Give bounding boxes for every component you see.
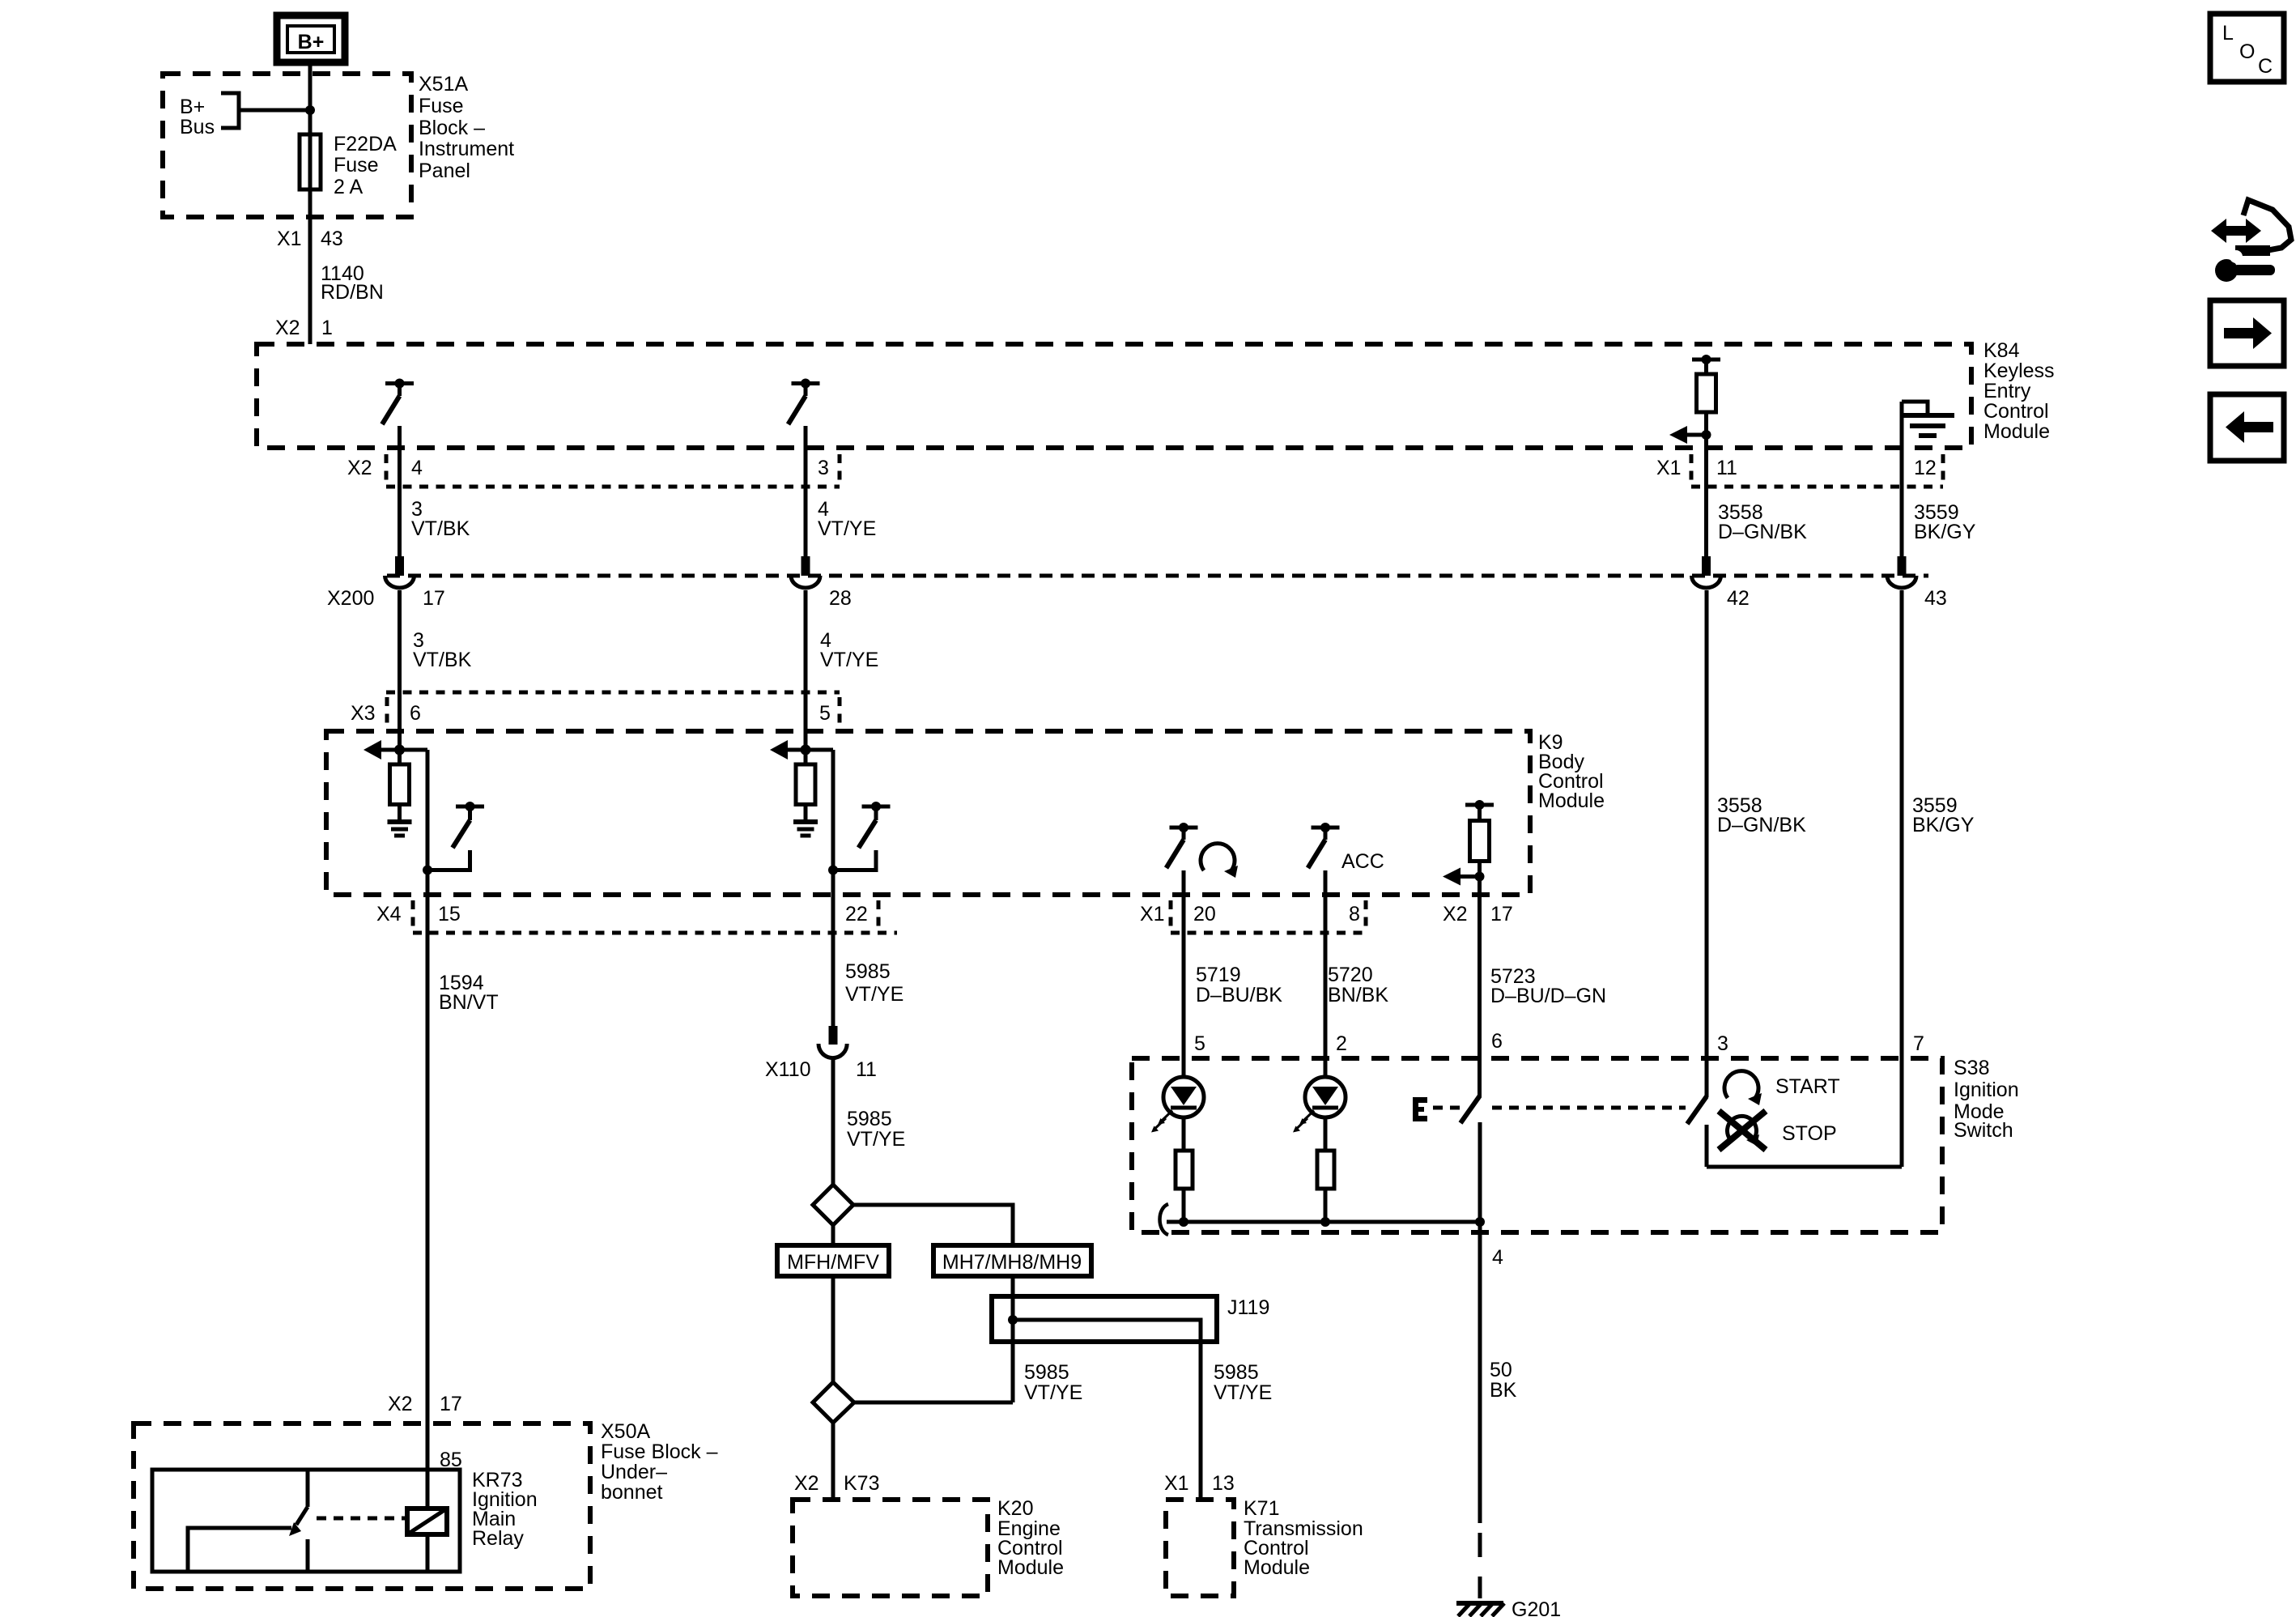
- svg-text:2 A: 2 A: [334, 176, 363, 198]
- wire label 5985 VT/YE above X110: [0, 0, 1, 1]
- svg-text:D–BU/BK: D–BU/BK: [1196, 984, 1282, 1006]
- svg-text:17: 17: [440, 1393, 462, 1415]
- svg-text:2: 2: [1336, 1032, 1347, 1055]
- svg-text:B+: B+: [298, 31, 325, 53]
- wire R2 to ground: [398, 805, 402, 820]
- inline connector X110: [765, 1026, 877, 1081]
- module K71 dashed box: [1166, 1500, 1234, 1596]
- wire D1 branch right: [853, 1205, 1013, 1245]
- loc arrow left box: [2210, 394, 2284, 461]
- B+ bus bracket: [221, 93, 239, 128]
- junction dot bus LED1: [1179, 1217, 1188, 1227]
- svg-text:C: C: [2258, 55, 2273, 78]
- wire label 5985 VT/YE right leg: [1214, 1361, 1272, 1404]
- wire branch pin6 down: [426, 750, 430, 870]
- svg-text:X51A: X51A: [419, 73, 468, 96]
- svg-text:3: 3: [818, 457, 829, 479]
- wire label 4 VT/YE lower: [820, 629, 878, 671]
- svg-text:START: START: [1775, 1075, 1840, 1098]
- mechanical link E to switches: [1433, 1106, 1686, 1110]
- label KR73 Ignition Main Relay: [472, 1469, 538, 1550]
- resistor R1 in K84: [1692, 355, 1720, 412]
- svg-text:20: 20: [1193, 903, 1216, 926]
- wire X200 to X3 right: [804, 590, 808, 692]
- svg-text:5719: 5719: [1196, 964, 1241, 986]
- svg-text:MFH/MFV: MFH/MFV: [787, 1251, 879, 1274]
- svg-text:VT/YE: VT/YE: [1024, 1381, 1082, 1404]
- wire label 3558 D-GN/BK lower: [1717, 794, 1806, 836]
- svg-text:11: 11: [1716, 457, 1737, 479]
- inline connector X200 wire 1: [385, 556, 415, 588]
- wire ground to pin12 X200: [1900, 402, 1904, 557]
- fuse F22DA: [300, 134, 321, 189]
- wire J119 splice to K71: [1013, 1320, 1201, 1500]
- svg-text:K84: K84: [1983, 339, 2020, 362]
- svg-text:X1: X1: [1140, 903, 1165, 926]
- svg-text:Module: Module: [1244, 1556, 1310, 1579]
- switch S6 acc in K9: [1308, 823, 1340, 868]
- connector X2 pin 17 of X50A: [388, 1393, 462, 1415]
- svg-text:X2: X2: [1443, 903, 1468, 926]
- wire R4 to junction: [1478, 862, 1482, 877]
- wire LED D1 to resistor: [1182, 1117, 1186, 1151]
- svg-text:ACC: ACC: [1341, 850, 1384, 873]
- svg-text:X4: X4: [376, 903, 402, 926]
- svg-text:STOP: STOP: [1782, 1122, 1837, 1145]
- splice diamond D1: [813, 1185, 853, 1225]
- wire pin4 to ground dashed: [1478, 1533, 1482, 1598]
- svg-text:5: 5: [819, 702, 831, 725]
- wire R3 to ground: [804, 805, 808, 820]
- wire pin11 down to X200: [1704, 435, 1708, 557]
- start rotate symbol: [1724, 1071, 1762, 1105]
- rotate symbol run: [1201, 844, 1238, 878]
- svg-text:17: 17: [1490, 903, 1513, 926]
- bus continuation curl: [1160, 1204, 1169, 1235]
- wire 3558 X200 to S38 pin3: [1705, 590, 1709, 1097]
- power symbol B+: [277, 15, 345, 62]
- svg-text:D–BU/D–GN: D–BU/D–GN: [1490, 985, 1606, 1007]
- switch S4 in K9 right: [833, 802, 891, 870]
- connector row X1 of K9: [1140, 900, 1366, 933]
- svg-text:6: 6: [1491, 1030, 1503, 1053]
- svg-text:MH7/MH8/MH9: MH7/MH8/MH9: [942, 1251, 1082, 1274]
- relay blade arrowhead: [289, 1522, 301, 1536]
- svg-text:X2: X2: [794, 1472, 819, 1495]
- svg-text:15: 15: [438, 903, 461, 926]
- svg-text:Relay: Relay: [472, 1527, 524, 1550]
- ground G201: [1456, 1598, 1561, 1617]
- wire label 3559 BK/GY lower: [1912, 794, 1975, 836]
- svg-text:5985: 5985: [845, 960, 891, 983]
- svg-text:L: L: [2222, 22, 2234, 45]
- splice diamond D2: [813, 1382, 854, 1423]
- off-page arrow left K84: [1669, 426, 1711, 444]
- resistor R5 in S38: [1176, 1151, 1193, 1189]
- svg-text:22: 22: [845, 903, 868, 926]
- resistor R3 in K9: [796, 764, 815, 805]
- svg-text:Panel: Panel: [419, 160, 470, 182]
- switch S3 in K9 left: [427, 802, 484, 870]
- junction dot B+ bus: [305, 105, 315, 115]
- wire label 3 VT/BK lower: [413, 629, 472, 671]
- resistor R6 in S38: [1317, 1151, 1334, 1189]
- svg-text:K71: K71: [1244, 1497, 1279, 1520]
- svg-text:VT/YE: VT/YE: [818, 517, 876, 540]
- svg-text:O: O: [2239, 40, 2255, 63]
- svg-text:X50A: X50A: [601, 1420, 650, 1443]
- junction dot J119: [1008, 1315, 1018, 1325]
- svg-text:Module: Module: [997, 1556, 1064, 1579]
- svg-text:Block –: Block –: [419, 117, 485, 139]
- relay contact blade: [296, 1507, 308, 1525]
- wire label 5985 VT/YE below X110: [847, 1108, 905, 1151]
- svg-text:3: 3: [1717, 1032, 1728, 1055]
- wire label 50 BK: [1490, 1359, 1517, 1402]
- module K9 dashed box: [326, 731, 1530, 895]
- wire label 1140 RD/BN: [321, 262, 384, 304]
- svg-text:Fuse Block –: Fuse Block –: [601, 1440, 718, 1463]
- switch S1 in K84: [382, 379, 414, 425]
- off-page arrow left K9 pin5: [770, 740, 833, 760]
- svg-text:RD/BN: RD/BN: [321, 281, 384, 304]
- junction dot S3 output: [423, 866, 432, 875]
- switch S2 in K84: [789, 379, 820, 425]
- svg-text:X2: X2: [275, 317, 300, 339]
- fuse block X51A dashed box: [163, 74, 411, 217]
- label S38 Ignition Mode Switch: [1954, 1057, 2019, 1142]
- wire label 3559 BK/GY upper: [1914, 501, 1976, 543]
- off-page arrow left K9 pin17: [1443, 868, 1485, 886]
- wire label 5985 VT/YE left leg: [1024, 1361, 1082, 1404]
- svg-text:Keyless: Keyless: [1983, 360, 2055, 382]
- contact stub pin3: [1705, 1125, 1709, 1167]
- module K20 dashed box: [793, 1500, 988, 1596]
- svg-text:7: 7: [1913, 1032, 1924, 1055]
- wire LED D2 to resistor: [1324, 1117, 1328, 1151]
- switch blade S38 pin3: [1687, 1096, 1707, 1124]
- net box MFH/MFV: [777, 1245, 889, 1276]
- wire MFH box to D2: [831, 1276, 835, 1382]
- junction dot bus pin4: [1475, 1217, 1485, 1227]
- relay fixed contact L: [188, 1528, 291, 1572]
- connector row X2 of K84: [347, 454, 840, 487]
- module K84 dashed box: [257, 344, 1971, 448]
- svg-text:D–GN/BK: D–GN/BK: [1718, 521, 1807, 543]
- wire pin20 down: [1182, 870, 1186, 1078]
- junction dot S4 output: [828, 866, 838, 875]
- svg-text:G201: G201: [1512, 1598, 1561, 1617]
- svg-text:K20: K20: [997, 1497, 1033, 1520]
- relay contact common stub: [306, 1470, 310, 1507]
- connector row X1 of K84: [1656, 454, 1943, 487]
- svg-text:43: 43: [321, 228, 343, 250]
- wire S1 to X200: [398, 426, 402, 557]
- svg-text:6: 6: [410, 702, 421, 725]
- wire label 5985 VT/YE col2: [845, 960, 904, 1006]
- wire B+ down through fuse: [308, 62, 313, 344]
- contact box bottom S38: [1707, 1165, 1902, 1169]
- svg-text:BK: BK: [1490, 1379, 1517, 1402]
- stop crossed rotate symbol: [1719, 1111, 1766, 1150]
- wire R6 to bus: [1324, 1189, 1328, 1222]
- indicator bus wire in S38: [1167, 1220, 1480, 1224]
- wire MH7 box to J119: [1011, 1276, 1015, 1402]
- svg-text:X2: X2: [388, 1393, 413, 1415]
- svg-text:Switch: Switch: [1954, 1119, 2013, 1142]
- svg-text:12: 12: [1914, 457, 1937, 479]
- junction dot bus LED2: [1320, 1217, 1330, 1227]
- svg-text:Module: Module: [1538, 789, 1605, 812]
- svg-text:J119: J119: [1227, 1296, 1269, 1319]
- wire D1 to MFH box: [831, 1225, 835, 1245]
- svg-text:VT/YE: VT/YE: [845, 983, 904, 1006]
- connector X2 pin 17 of K9: [1443, 903, 1513, 926]
- svg-text:5720: 5720: [1328, 964, 1373, 986]
- relay contact lower stub: [306, 1539, 310, 1572]
- svg-text:F22DA: F22DA: [334, 133, 397, 155]
- wire branch pin5 down: [831, 750, 835, 870]
- inline connector X200 wire 42: [1692, 556, 1721, 588]
- switch S5 run in K9: [1167, 823, 1198, 868]
- label K9 Body Control Module: [1538, 731, 1605, 812]
- module S38 dashed box: [1132, 1058, 1942, 1232]
- svg-text:X1: X1: [1164, 1472, 1189, 1495]
- svg-text:8: 8: [1349, 903, 1360, 926]
- connector row X3: [351, 692, 840, 726]
- svg-text:S38: S38: [1954, 1057, 1989, 1079]
- svg-text:11: 11: [856, 1058, 877, 1081]
- svg-text:Ignition: Ignition: [1954, 1079, 2019, 1101]
- ground in K9 left: [388, 822, 412, 836]
- label X50A Fuse Block Underbonnet: [601, 1420, 718, 1504]
- wire label 5723 D-BU/D-GN: [1490, 965, 1606, 1007]
- wire pin8 down: [1324, 870, 1328, 1078]
- svg-text:bonnet: bonnet: [601, 1481, 663, 1504]
- svg-text:Bus: Bus: [180, 116, 215, 138]
- svg-text:50: 50: [1490, 1359, 1512, 1381]
- resistor R2 in K9: [390, 764, 410, 805]
- svg-text:D–GN/BK: D–GN/BK: [1717, 814, 1806, 836]
- wire B+ bus to fuse: [239, 109, 310, 113]
- svg-text:4: 4: [411, 457, 423, 479]
- svg-text:5: 5: [1194, 1032, 1205, 1055]
- fuse block X50A dashed box: [134, 1423, 590, 1589]
- relay KR73 box: [152, 1470, 460, 1572]
- label K84 Keyless Entry Control Module: [1983, 339, 2055, 443]
- wire pin5 to resistor: [804, 692, 808, 764]
- svg-text:X1: X1: [277, 228, 302, 250]
- svg-text:VT/YE: VT/YE: [847, 1128, 905, 1151]
- svg-text:Fuse: Fuse: [334, 154, 379, 177]
- svg-text:Control: Control: [1983, 400, 2049, 423]
- svg-text:VT/BK: VT/BK: [411, 517, 470, 540]
- connector X1 pin 43: [277, 228, 343, 250]
- label X51A Fuse Block - Instrument Panel: [419, 73, 514, 182]
- wire 1594 down to relay: [426, 870, 430, 1510]
- svg-text:5985: 5985: [847, 1108, 892, 1130]
- wire pin4 to ground solid: [1478, 1222, 1482, 1523]
- wire pin17 down to S38 pin6: [1478, 877, 1482, 1097]
- svg-text:42: 42: [1727, 587, 1750, 610]
- net box MH7/MH8/MH9: [933, 1245, 1091, 1276]
- label K20 Engine Control Module: [997, 1497, 1064, 1579]
- svg-text:Module: Module: [1983, 420, 2050, 443]
- wire coil to relay box bottom: [426, 1534, 430, 1572]
- relay coil KR73: [407, 1508, 447, 1534]
- svg-text:Under–: Under–: [601, 1461, 667, 1483]
- svg-text:X1: X1: [1656, 457, 1682, 479]
- svg-text:Entry: Entry: [1983, 380, 2031, 402]
- LED D1 in S38: [1151, 1077, 1204, 1133]
- svg-text:BN/BK: BN/BK: [1328, 984, 1388, 1006]
- svg-text:BN/VT: BN/VT: [439, 991, 499, 1014]
- svg-text:5985: 5985: [1024, 1361, 1069, 1384]
- svg-text:VT/YE: VT/YE: [1214, 1381, 1272, 1404]
- switch blade S38 pin6: [1461, 1096, 1480, 1123]
- ground in K9 right: [793, 822, 818, 836]
- LED D2 in S38: [1293, 1077, 1346, 1133]
- wire label 4 VT/YE upper: [818, 498, 876, 540]
- inline connector X200 wire 2: [791, 556, 820, 588]
- wire label 5719 D-BU/BK: [1196, 964, 1282, 1006]
- wire label 3558 D-GN/BK upper: [1718, 501, 1807, 543]
- wire D2 branch to J119 leg: [854, 1401, 1013, 1405]
- relay mechanical link dashes: [317, 1517, 405, 1521]
- svg-text:X2: X2: [347, 457, 372, 479]
- wire D2 to K20: [831, 1423, 835, 1500]
- ground in K84: [1901, 402, 1954, 436]
- wire label 1594 BN/VT: [439, 972, 499, 1014]
- wire label 3 VT/BK upper: [411, 498, 470, 540]
- svg-text:VT/BK: VT/BK: [413, 649, 472, 671]
- svg-text:Fuse: Fuse: [419, 95, 464, 117]
- svg-text:BK/GY: BK/GY: [1912, 814, 1975, 836]
- loc arrow right box: [2210, 300, 2284, 366]
- svg-text:X200: X200: [327, 587, 374, 610]
- svg-text:Instrument: Instrument: [419, 138, 514, 160]
- wire X200 to X3 left: [398, 590, 402, 692]
- svg-text:28: 28: [829, 587, 852, 610]
- wire X110 to splice: [831, 1057, 835, 1185]
- resistor R4 in K9: [1465, 800, 1494, 862]
- wire R1 to junction: [1704, 412, 1708, 435]
- svg-text:13: 13: [1212, 1472, 1235, 1495]
- svg-text:4: 4: [1492, 1246, 1503, 1269]
- service tool icon: [2211, 200, 2291, 282]
- wire R5 to bus: [1182, 1189, 1186, 1222]
- svg-text:5985: 5985: [1214, 1361, 1259, 1384]
- connector row X4 of K9: [376, 900, 897, 933]
- connector X2 pin 1: [275, 317, 333, 339]
- svg-text:1: 1: [321, 317, 333, 339]
- svg-text:BK/GY: BK/GY: [1914, 521, 1976, 543]
- connector X1 pin 13 of K71: [1164, 1472, 1235, 1495]
- svg-text:B+: B+: [180, 96, 205, 118]
- svg-text:43: 43: [1924, 587, 1947, 610]
- svg-text:K73: K73: [844, 1472, 879, 1495]
- wire pin6 to bus: [1478, 1122, 1482, 1222]
- node B+ Bus label: [180, 96, 215, 138]
- connector X2 pin K73 of K20: [794, 1472, 879, 1495]
- inline connector X200 wire 43: [1887, 556, 1916, 588]
- label K71 Transmission Control Module: [1244, 1497, 1363, 1579]
- svg-text:17: 17: [423, 587, 445, 610]
- node E key symbol: [1413, 1097, 1427, 1121]
- svg-text:VT/YE: VT/YE: [820, 649, 878, 671]
- svg-text:X110: X110: [765, 1058, 811, 1081]
- off-page arrow left K9 pin6: [364, 740, 427, 760]
- svg-text:X3: X3: [351, 702, 376, 725]
- wire label 5720 BN/BK: [1328, 964, 1388, 1006]
- wire 3559 X200 to S38 pin7: [1900, 590, 1904, 1167]
- wire 5985 down to X110: [831, 870, 835, 1027]
- wire S2 to X200: [804, 426, 808, 557]
- connector row X200 dashed line: [327, 576, 1928, 610]
- wire pin6 to resistor: [398, 692, 402, 764]
- splice pack J119: [992, 1296, 1269, 1342]
- loc reference box: [2210, 14, 2284, 82]
- label F22DA Fuse 2 A: [334, 133, 397, 198]
